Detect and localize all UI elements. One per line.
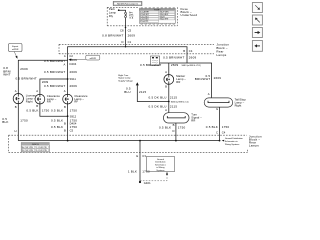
svg-text:RF: RF (74, 100, 78, 104)
reference Ground Distribution (in block) (219, 137, 244, 146)
fuse block label (181, 7, 198, 17)
lamp E4 Marker Lamp RR (164, 75, 174, 85)
svg-text:Systems: Systems (156, 169, 164, 172)
svg-text:B: B (183, 49, 185, 53)
pin C / connector C4 (216, 131, 226, 135)
svg-text:A: A (64, 89, 66, 93)
svg-text:2609: 2609 (70, 70, 78, 74)
label 0.5 BRN/WHT 2609 right feed (163, 56, 196, 60)
svg-text:0.5 BRN/WHT: 0.5 BRN/WHT (15, 76, 36, 80)
button pan up-left (252, 15, 262, 25)
wire 0.5 BLU 2115 (137, 85, 169, 101)
svg-text:0.5 BRN/WHT: 0.5 BRN/WHT (140, 63, 161, 67)
ground G401 (139, 181, 151, 185)
svg-text:Hot With Park Lamps On: Hot With Park Lamps On (117, 3, 138, 6)
svg-text:Distribution: Distribution (155, 161, 166, 164)
node bus entry (125, 44, 127, 47)
svg-text:C8: C8 (120, 29, 124, 33)
wire tail stop ground 0.5 BLK 1750 (219, 107, 221, 141)
svg-text:1750: 1750 (42, 109, 50, 113)
wire turn signal ground 0.5 BLK 1750 (175, 123, 177, 141)
svg-text:0.5 BLK: 0.5 BLK (206, 125, 218, 129)
fuse F1 AUX PARK (125, 12, 127, 17)
pin B / connector C5 ground entry (64, 129, 74, 133)
label 0.5 BLK 1750 tail ground (206, 125, 230, 129)
label Clearance Lamp RF (74, 94, 88, 104)
svg-text:Schematics: Schematics (155, 163, 166, 166)
svg-text:D404: D404 (70, 62, 77, 66)
fuse block U1 dashed outline (107, 7, 177, 26)
pin B C4 right feed (183, 49, 193, 53)
svg-text:C5: C5 (128, 29, 132, 33)
svg-text:BRN/WHT: BRN/WHT (195, 77, 211, 81)
wire license lamp ground (17, 104, 19, 141)
splice S911 (67, 77, 77, 81)
lamp E1 License Lamp Right (13, 94, 23, 104)
svg-text:B: B (64, 129, 66, 133)
reference callout Ground Distribution Schematics (140, 157, 175, 181)
svg-text:2609: 2609 (70, 84, 78, 88)
svg-text:Right: Right (235, 104, 242, 108)
svg-text:C: C3-8 3 PIN: C: C3-8 3 PIN (36, 147, 47, 149)
label 0.5 BLU 2115 (124, 87, 146, 94)
svg-text:2609: 2609 (20, 67, 28, 71)
svg-text:B: C3-F 3 PIN: B: C3-F 3 PIN (22, 150, 33, 152)
svg-text:S483 (w/X88 & UY1): S483 (w/X88 & UY1) (182, 65, 201, 67)
wire fuse to fuse block edge (125, 18, 127, 26)
wire left feed 0.5 BRN/WHT from A C2 (67, 54, 69, 95)
lamp E6 Tail Stop Lamp Right (204, 98, 233, 107)
svg-text:Lamps: Lamps (216, 53, 226, 57)
svg-text:1750: 1750 (20, 119, 28, 123)
svg-text:1750: 1750 (70, 125, 78, 129)
label 0.5 BRN/WHT 2609 row2 (44, 70, 77, 74)
svg-text:WHT: WHT (3, 72, 11, 76)
svg-text:1750: 1750 (70, 109, 78, 113)
svg-text:B: B (173, 123, 175, 127)
svg-text:S911: S911 (70, 77, 77, 81)
label Clearance Lamp RR (47, 94, 61, 104)
wire marker lamp drop (168, 63, 170, 75)
wire feed bus to tail stop lamp (160, 63, 212, 98)
relay K1 Park Lamp Relay label (109, 7, 117, 18)
svg-text:C3: C3 (142, 154, 146, 158)
svg-text:A: A (64, 54, 66, 58)
svg-text:RR: RR (176, 80, 180, 84)
svg-text:G: G (216, 107, 218, 111)
label 1 BLK 1750 (128, 169, 150, 173)
svg-text:RR: RR (47, 100, 51, 104)
svg-text:Underhood: Underhood (181, 13, 198, 17)
label 0.5 BRN/WHT 2609 tail feed (195, 74, 222, 81)
svg-text:0.5 BLK: 0.5 BLK (51, 109, 63, 113)
wire marker ground to turn signal (168, 84, 170, 113)
node ground bus exit (139, 140, 141, 142)
junction block rear lamps (bottom) dashed outline (9, 135, 248, 152)
svg-text:0.5 BLK: 0.5 BLK (51, 125, 63, 129)
splice S912 (67, 115, 77, 119)
svg-text:C5: C5 (70, 129, 74, 133)
svg-text:1750: 1750 (222, 125, 230, 129)
off-page reference Right Turn Signal Lamp Supply Voltage (118, 74, 139, 85)
wire clearance RR ground (40, 104, 68, 116)
svg-text:B: B (64, 105, 66, 109)
svg-text:D: D (122, 40, 124, 44)
node below fuse block (125, 27, 127, 29)
label License Lamp Right (26, 94, 36, 104)
junction block detail table (21, 143, 49, 153)
node relay output (118, 9, 120, 11)
svg-text:C5=E PPL: C5=E PPL (141, 21, 149, 23)
svg-text:A: A (165, 108, 167, 112)
svg-text:Rly: Rly (109, 14, 114, 18)
button pan down-right (252, 3, 262, 13)
wire ground exit 1 BLK 1750 (139, 141, 141, 182)
label 0.5 BLK 1750 license ground (2, 117, 28, 124)
svg-text:C4: C4 (189, 49, 193, 53)
label 0.8 BRN/WHT 2609 (102, 34, 135, 38)
svg-text:C1: C1 (128, 40, 132, 44)
label 0.5 BLK 1750 clearance RF (51, 109, 77, 113)
svg-text:A: A (208, 92, 210, 96)
svg-text:D: D (172, 129, 174, 133)
svg-text:Wiring Systems: Wiring Systems (225, 143, 239, 146)
svg-text:Ground: Ground (157, 158, 165, 161)
junction block rear lamps (top) dashed outline (59, 44, 214, 54)
svg-text:w/RVR: w/RVR (90, 58, 97, 60)
svg-text:0.5 BLK: 0.5 BLK (51, 118, 63, 122)
label Tail Stop Lamp Right (235, 98, 247, 108)
label 0.5 BRN/WHT 2609 row1 (44, 58, 77, 63)
svg-text:0.5 DK BLU: 0.5 DK BLU (149, 95, 167, 99)
svg-text:D: C3-F 3 PIN: D: C3-F 3 PIN (36, 150, 47, 152)
callout box power w/RVR top-left (9, 44, 23, 59)
button previous (252, 41, 262, 52)
svg-text:S480 (w/X88 & C1): S480 (w/X88 & C1) (171, 101, 189, 103)
button next (252, 28, 262, 38)
svg-text:G401: G401 (144, 181, 151, 185)
node ground bus turn (175, 140, 177, 142)
svg-text:B: B (64, 122, 66, 126)
svg-text:B4=J WHT: B4=J WHT (160, 19, 168, 21)
svg-text:Park: Park (109, 7, 115, 11)
svg-text:A: C3-8 3 PIN: A: C3-8 3 PIN (22, 146, 33, 149)
wire right feed drop 2609 (186, 54, 188, 63)
option callout w/RVR (68, 55, 100, 60)
svg-text:0.5 BLK: 0.5 BLK (159, 126, 171, 130)
label 0.5 BLK 1750 clearance RR (26, 109, 49, 113)
label Marker Lamp RR (176, 74, 186, 84)
svg-text:Right Turn: Right Turn (118, 74, 129, 77)
fuse F1 value label (129, 11, 134, 19)
wire internal ground bus (18, 140, 219, 142)
svg-text:0.5 BRN/WHT: 0.5 BRN/WHT (44, 84, 65, 88)
lamp E3 Clearance Lamp RF (63, 94, 73, 104)
pin E / connector C3 (136, 154, 146, 158)
svg-text:1750: 1750 (178, 126, 186, 130)
svg-text:Right: Right (26, 99, 33, 103)
node ground bus S-left (67, 140, 69, 142)
svg-text:A: A (63, 62, 65, 66)
svg-text:B: B (165, 85, 167, 89)
svg-text:2115: 2115 (170, 95, 177, 99)
svg-text:C: C (216, 131, 218, 135)
svg-text:0.5 DK BLU: 0.5 DK BLU (149, 104, 167, 108)
svg-text:0.5 BRN/WHT: 0.5 BRN/WHT (44, 59, 65, 63)
svg-text:H: H (15, 129, 17, 133)
svg-text:E: E (136, 154, 138, 158)
svg-text:0.5 BLK: 0.5 BLK (26, 109, 38, 113)
svg-text:JUNC B: JUNC B (32, 144, 40, 146)
svg-text:2609: 2609 (189, 56, 197, 60)
svg-text:0.8 BRN/WHT: 0.8 BRN/WHT (102, 34, 123, 38)
svg-text:2609: 2609 (171, 63, 179, 67)
wire clearance RF ground (67, 104, 69, 141)
svg-text:Lamp: Lamp (109, 10, 117, 14)
svg-text:w/RVR: w/RVR (12, 49, 19, 51)
label 0.5 BLK 1750 below S912 (51, 118, 77, 122)
label 0.5 BLK 1750 turn ground (159, 126, 185, 130)
svg-text:BLU: BLU (124, 90, 131, 94)
wire branch to clearance lamp RR (40, 79, 68, 94)
label 0.5 DK BLU 2115 row2 (149, 104, 178, 108)
svg-text:A: A (165, 70, 167, 74)
svg-text:0.5 BRN/WHT: 0.5 BRN/WHT (163, 56, 184, 60)
wire relay to fuse (119, 10, 126, 12)
svg-text:A: A (15, 89, 17, 93)
junction block top label (216, 43, 229, 58)
label 0.8 BRN/WHT 2609 on license feed (3, 66, 28, 76)
svg-text:B: B (15, 105, 17, 109)
svg-text:2609: 2609 (128, 34, 136, 38)
label Turn Signal RR (191, 113, 202, 123)
svg-text:RR: RR (191, 118, 195, 122)
banner Hot With Park Lamps On (113, 2, 142, 6)
lamp E5 Turn Signal RR (163, 113, 189, 123)
svg-text:2609: 2609 (70, 58, 78, 62)
label 0.5 BRN/WHT 2609 row3 (44, 84, 77, 88)
svg-text:A: A (36, 89, 38, 93)
wire fuse block to junction block, circuit 2609 (125, 26, 127, 45)
svg-text:Supply Voltage: Supply Voltage (118, 79, 133, 82)
svg-text:Lamps: Lamps (249, 144, 259, 148)
svg-text:Signal Lamp: Signal Lamp (118, 78, 131, 80)
splice S480 (168, 101, 189, 104)
pin D / connector C1 (122, 40, 132, 44)
svg-text:0.5 BRN/WHT: 0.5 BRN/WHT (44, 70, 65, 74)
pin C8 / connector C5 (120, 29, 132, 33)
svg-text:BLK: BLK (2, 120, 8, 124)
wire internal bus of top junction block (68, 47, 187, 54)
pin A / connector C2 (64, 54, 74, 58)
label 0.5 DK BLU 2115 row1 (149, 95, 178, 99)
svg-text:2609: 2609 (214, 76, 222, 80)
fuse legend table (139, 7, 175, 24)
connector D404 inline ground, pin B (64, 122, 77, 126)
svg-text:Schematics in: Schematics in (225, 140, 239, 143)
svg-text:2115: 2115 (170, 104, 177, 108)
svg-text:in Wiring: in Wiring (156, 166, 165, 169)
svg-text:Ground Distribution: Ground Distribution (225, 137, 244, 140)
svg-text:Export: Export (12, 45, 18, 48)
wire branch to license lamp (18, 60, 67, 93)
connector D404 inline, pin A (63, 62, 76, 67)
svg-text:1 BLK: 1 BLK (128, 169, 137, 173)
lamp E2 Clearance Lamp RR (35, 94, 45, 104)
svg-text:C4: C4 (222, 131, 226, 135)
label 0.5 BLK 1750 row3 (51, 125, 77, 129)
svg-text:2115: 2115 (139, 90, 146, 94)
junction block bottom label (249, 134, 262, 147)
connector block C400 symbol (151, 56, 160, 65)
